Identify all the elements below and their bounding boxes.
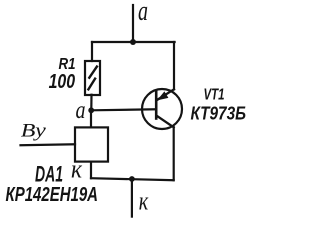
transistor VT1 circle xyxy=(142,89,182,129)
wire: R1 bottom lead xyxy=(90,95,92,111)
svg-text:КР142ЕН19А: КР142ЕН19А xyxy=(6,183,99,206)
svg-text:VT1: VT1 xyxy=(204,86,225,103)
junction dot node a xyxy=(88,107,94,113)
resistor R1 power slash 1 xyxy=(89,67,97,78)
svg-text:Ву: Ву xyxy=(21,121,47,142)
wire: DA1 top lead xyxy=(90,110,92,127)
svg-text:100: 100 xyxy=(49,71,76,93)
wire: node a to transistor base xyxy=(91,109,156,110)
svg-text:к: к xyxy=(139,187,149,216)
wire: collector vertical to bottom rail xyxy=(173,127,175,180)
wire: top rail xyxy=(92,41,175,43)
wire: R1 top lead xyxy=(91,42,93,61)
wire: top terminal a vertical xyxy=(132,5,134,42)
svg-text:к: к xyxy=(71,155,83,184)
resistor R1 power slash 2 xyxy=(88,79,95,90)
wire: emitter vertical to top rail xyxy=(173,42,175,89)
wire: bottom terminal k vertical xyxy=(131,179,133,216)
transistor VT1 emitter diagonal xyxy=(157,89,174,100)
junction dot bottom terminal xyxy=(129,176,135,182)
svg-text:а: а xyxy=(138,0,148,27)
IC DA1 body xyxy=(75,127,108,161)
wire: DA1 bottom lead xyxy=(90,162,92,179)
svg-text:КТ973Б: КТ973Б xyxy=(191,103,247,123)
resistor R1 body xyxy=(85,61,100,95)
junction dot at top terminal xyxy=(130,39,136,45)
transistor VT1 base bar xyxy=(155,92,158,119)
transistor VT1 collector diagonal xyxy=(157,116,174,127)
wire: bottom rail xyxy=(91,178,174,180)
transistor VT1 emitter arrow (PNP, pointing to base) xyxy=(157,91,168,100)
svg-text:а: а xyxy=(76,97,86,124)
wire: input Vy xyxy=(21,143,76,146)
